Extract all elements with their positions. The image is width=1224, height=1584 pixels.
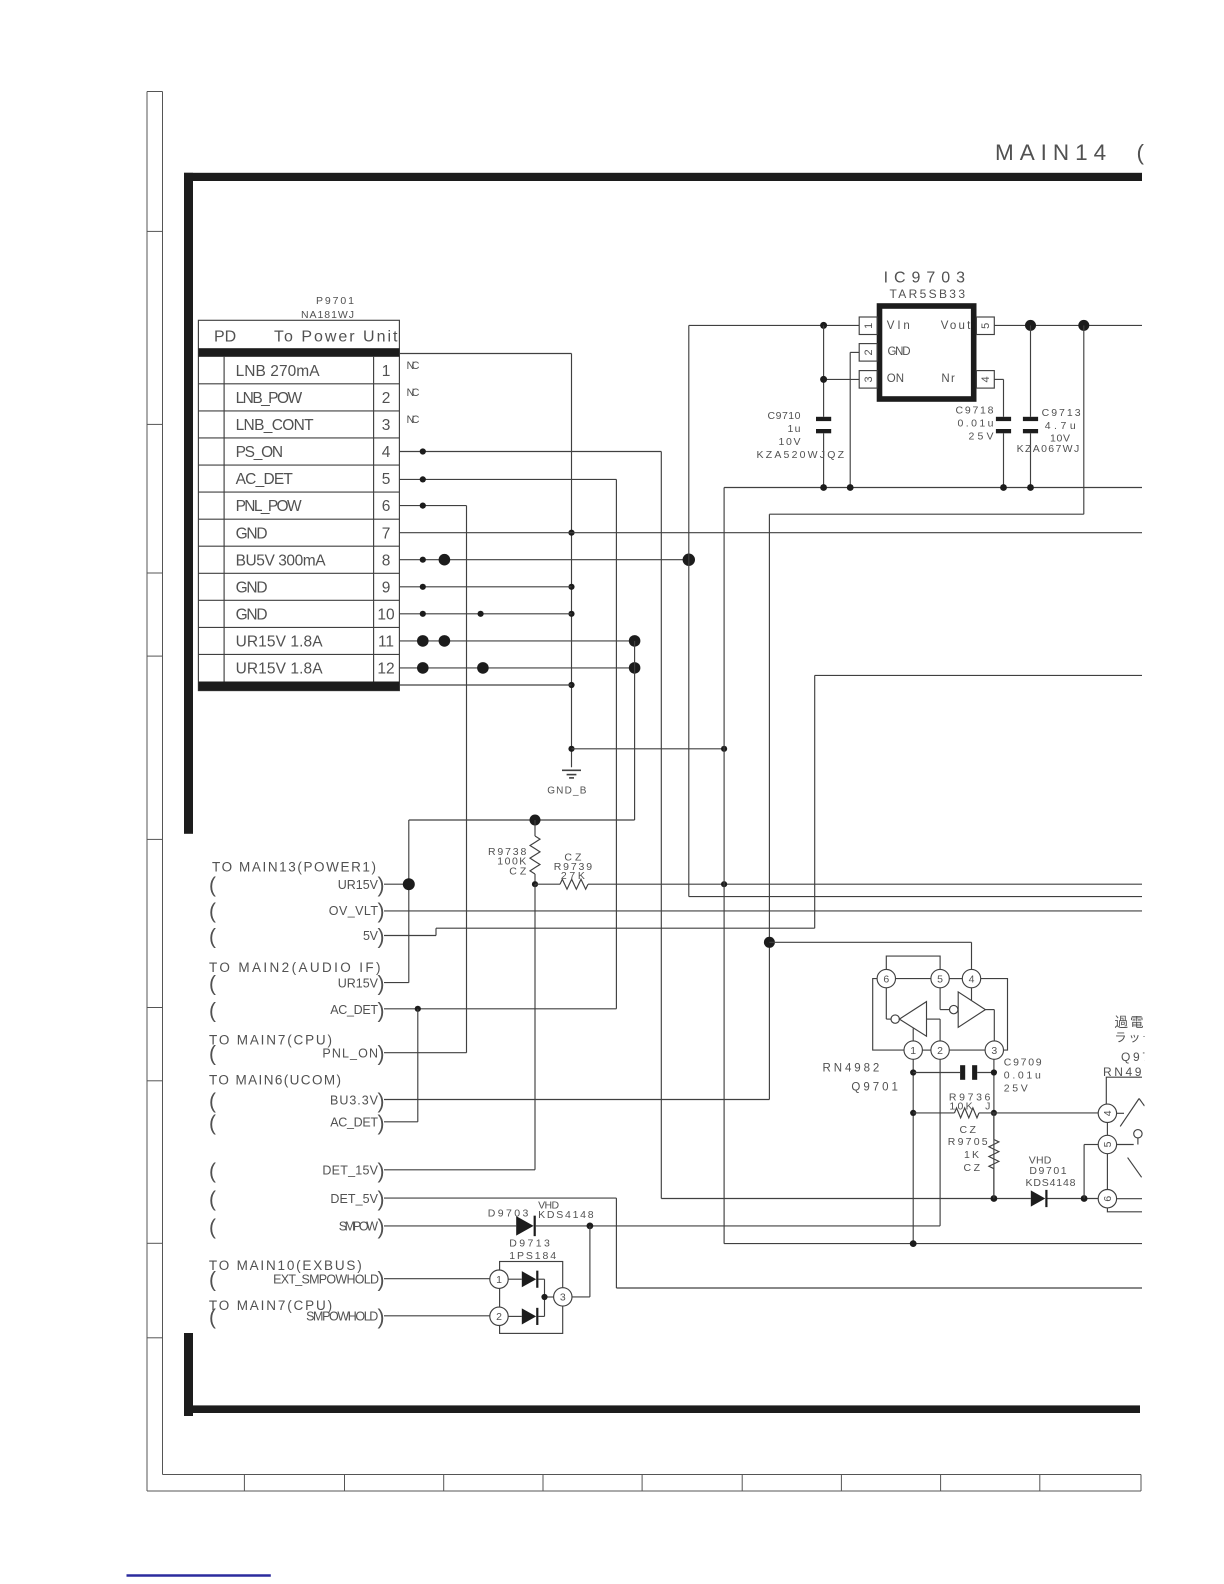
svg-text:27K: 27K: [561, 870, 585, 882]
wire Q9702 top bracket: [1106, 1077, 1142, 1104]
svg-text:(: (: [209, 1112, 216, 1135]
wire Nr pin4 to C9718: [994, 379, 1003, 416]
svg-text:(: (: [209, 1269, 216, 1292]
wire PS_ON lower rail to D9701: [661, 1198, 1031, 1200]
wire 5V rail: [384, 675, 1142, 935]
resistor R9705 1K CZ: [948, 1113, 999, 1199]
wire Q9701 top bracket pins 6-5: [886, 956, 940, 969]
node UR15V-11 pads: [417, 635, 429, 647]
svg-text:Vout: Vout: [941, 320, 971, 332]
svg-text:4: 4: [969, 973, 975, 985]
svg-text:D9701: D9701: [1029, 1165, 1066, 1177]
svg-text:): ): [378, 1000, 385, 1023]
svg-text:5: 5: [980, 323, 992, 329]
wire GND pin7 rail: [399, 532, 1142, 534]
svg-text:PD: PD: [214, 329, 236, 346]
node row7 GND junction: [568, 530, 574, 536]
op-amp IC9703 TAR5SB33: [859, 270, 994, 400]
svg-text:LNB_POW: LNB_POW: [236, 390, 303, 407]
svg-text:KZA067WJ: KZA067WJ: [1017, 443, 1080, 455]
node pin1 GND-rail junction: [910, 1240, 917, 1247]
svg-text:D9703: D9703: [488, 1207, 529, 1219]
svg-text:): ): [378, 973, 385, 996]
svg-text:7: 7: [382, 525, 391, 542]
svg-text:PNL_POW: PNL_POW: [236, 498, 302, 515]
svg-text:UR15V 1.8A: UR15V 1.8A: [236, 661, 324, 678]
svg-text:1: 1: [910, 1045, 916, 1057]
node R9739 GND junction: [721, 881, 727, 887]
svg-text:NC: NC: [407, 414, 420, 426]
svg-text:Nr: Nr: [941, 373, 955, 385]
svg-text:5: 5: [937, 973, 943, 985]
svg-text:(: (: [209, 1188, 216, 1211]
node GND10 markers: [420, 611, 426, 617]
wire ON tie to VIn: [824, 325, 860, 416]
svg-text:C9709: C9709: [1004, 1057, 1042, 1069]
svg-text:3: 3: [991, 1045, 997, 1057]
svg-text:): ): [378, 1160, 385, 1183]
wire 3.3V to Q9701 pin4: [769, 942, 971, 969]
svg-text:Q9701: Q9701: [851, 1082, 898, 1094]
wire below table: [399, 684, 571, 686]
wire UR15V pin11: [399, 640, 634, 642]
svg-text:): ): [378, 1043, 385, 1066]
wire divider node to DET_15V: [384, 884, 535, 1170]
svg-text:NC: NC: [407, 360, 420, 372]
wire junction up to pin5 of Q9702: [1084, 1145, 1098, 1199]
svg-text:AC_DET: AC_DET: [330, 1116, 378, 1130]
node BU5V marker: [420, 557, 426, 563]
node VIn C9710 junction: [820, 322, 827, 329]
svg-text:GND_B: GND_B: [547, 786, 587, 797]
node UR15V MAIN13 junction: [403, 878, 415, 890]
wire AC_DET to MAIN6: [384, 1009, 418, 1122]
svg-text:1: 1: [863, 323, 875, 329]
svg-text:1: 1: [496, 1274, 502, 1286]
svg-text:R9705: R9705: [948, 1136, 988, 1148]
svg-text:(: (: [209, 1216, 216, 1239]
node GND_B right junction: [721, 746, 727, 752]
svg-text:KZA520WJQZ: KZA520WJQZ: [757, 449, 845, 461]
svg-text:(: (: [209, 973, 216, 996]
node UR15V rail R9738 junction: [530, 815, 541, 826]
node Vout C9713 junction: [1025, 320, 1036, 331]
inverter A of Q9701: [886, 988, 940, 1041]
svg-text:4: 4: [1102, 1110, 1114, 1116]
svg-text:3: 3: [863, 376, 875, 382]
svg-text:DET_15V: DET_15V: [322, 1164, 378, 1178]
svg-text:5V: 5V: [363, 929, 379, 943]
wire GND pin10: [399, 613, 571, 615]
svg-text:GND: GND: [888, 346, 911, 358]
node Vout feedback junction: [1078, 320, 1089, 331]
diode array D9713 1PS184: [490, 1238, 572, 1334]
wire 3.3V feedback to BU3.3V: [384, 325, 1084, 1099]
wire D9701 cathode to pin6 of Q9702: [1048, 1198, 1099, 1200]
svg-text:NC: NC: [407, 387, 420, 399]
diode D9701 VHD KDS4148: [1026, 1155, 1076, 1208]
svg-text:5: 5: [1102, 1141, 1114, 1147]
svg-text:LNB 270mA: LNB 270mA: [236, 363, 321, 380]
wire OV_VLT rail: [384, 910, 1142, 912]
svg-text:(: (: [209, 1160, 216, 1183]
svg-text:To Power Unit: To Power Unit: [274, 329, 398, 346]
svg-text:3: 3: [382, 417, 391, 434]
svg-text:SMPOW: SMPOW: [339, 1220, 378, 1234]
resistor R9739 27K CZ: [535, 851, 1142, 889]
svg-text:1K: 1K: [964, 1149, 979, 1161]
node BU5V to VIn junction: [683, 554, 695, 566]
svg-text:4.7u: 4.7u: [1045, 420, 1076, 432]
svg-text:10: 10: [377, 606, 395, 623]
svg-text:11: 11: [378, 634, 394, 651]
node 3.3V to pin4 wire junction: [764, 937, 775, 948]
svg-text:2: 2: [496, 1311, 502, 1323]
wire VIn line: [689, 324, 859, 326]
wire EXT_SMPOWHOLD to D9713: [384, 1278, 490, 1280]
wire GND pin2 of IC9703: [850, 352, 859, 487]
wire DET_5V rail: [384, 1198, 1142, 1288]
capacitor C9713 4.7u 10V: [1017, 325, 1081, 487]
svg-text:GND: GND: [236, 579, 268, 596]
svg-text:DET_5V: DET_5V: [330, 1192, 378, 1206]
node ON junction: [820, 376, 827, 383]
svg-text:2: 2: [937, 1045, 943, 1057]
svg-text:): ): [378, 1269, 385, 1292]
svg-text:10V: 10V: [779, 436, 801, 448]
inverter A of Q9702 (cut): [1117, 1099, 1145, 1139]
wire GND_B horizontal: [572, 748, 725, 750]
svg-text:3: 3: [560, 1292, 566, 1304]
svg-text:0.01u: 0.01u: [1004, 1070, 1041, 1082]
svg-text:4: 4: [980, 376, 992, 382]
svg-text:LNB_CONT: LNB_CONT: [236, 417, 315, 434]
schematic border frame (thick): [184, 173, 1142, 1416]
svg-text:(: (: [209, 1043, 216, 1066]
svg-text:5: 5: [382, 471, 391, 488]
svg-text:BU3.3V: BU3.3V: [330, 1094, 379, 1108]
svg-text:AC_DET: AC_DET: [330, 1003, 378, 1017]
wire GND rail of IC9703: [724, 488, 1142, 1244]
svg-text:(: (: [209, 926, 216, 949]
wire PNL_POW pin6 to PNL_ON: [384, 506, 467, 1053]
wire R9736 line into pin4: [1097, 1112, 1099, 1114]
node below-table junction: [568, 682, 574, 688]
wire Q9701 right rail pin4 to pin3: [981, 979, 1008, 1051]
svg-text:C9710: C9710: [768, 410, 801, 422]
capacitor C9718 0.01u 25V: [956, 405, 1012, 488]
svg-text:OV_VLT: OV_VLT: [329, 904, 379, 918]
svg-text:NA181WJ: NA181WJ: [301, 309, 354, 321]
connector table PD To Power Unit: [198, 320, 399, 690]
svg-text:): ): [378, 1112, 385, 1135]
wire table-top to GND_B drop: [399, 354, 571, 768]
svg-text:TO MAIN13(POWER1): TO MAIN13(POWER1): [212, 859, 376, 874]
node row9 GND junction: [568, 584, 574, 590]
svg-text:(: (: [209, 1090, 216, 1113]
svg-text:UR15V 1.8A: UR15V 1.8A: [236, 634, 324, 651]
svg-text:TO MAIN7(CPU): TO MAIN7(CPU): [209, 1033, 332, 1048]
wire GND pin9: [399, 586, 571, 588]
svg-text:2: 2: [382, 390, 391, 407]
pin circles of Q9702: [1098, 1104, 1116, 1208]
blue pen mark bottom-left: [127, 1574, 271, 1576]
node AC_DET branch junction: [415, 1006, 421, 1012]
svg-text:VIn: VIn: [887, 320, 910, 332]
capacitor C9710 1u 10V: [757, 410, 845, 488]
svg-text:TO MAIN6(UCOM): TO MAIN6(UCOM): [209, 1073, 341, 1088]
svg-text:(: (: [209, 1306, 216, 1329]
svg-text:8: 8: [382, 552, 391, 569]
node pin3 D9701 junction: [991, 1195, 998, 1202]
svg-text:D9713: D9713: [509, 1238, 550, 1250]
svg-text:(: (: [209, 874, 216, 897]
svg-text:2: 2: [863, 349, 875, 355]
svg-text:): ): [378, 900, 385, 923]
svg-text:EXT_SMPOWHOLD: EXT_SMPOWHOLD: [273, 1272, 379, 1286]
inverter B of Q9702 (cut): [1117, 1138, 1142, 1177]
wire Q9701 pin3 net down: [993, 1059, 995, 1198]
svg-text:0.01u: 0.01u: [958, 418, 994, 430]
svg-text:6: 6: [883, 973, 889, 985]
wire AC_DET pin5: [384, 479, 616, 1008]
node pin1 R9736 junction: [910, 1110, 916, 1116]
svg-text:KDS4148: KDS4148: [538, 1209, 594, 1221]
bottom fold-mark ruler: [147, 1475, 1141, 1492]
wire BU5V pin8: [399, 559, 688, 561]
svg-text:1: 1: [382, 363, 391, 380]
svg-text:(: (: [209, 1000, 216, 1023]
svg-text:ON: ON: [887, 373, 904, 385]
svg-text:C9713: C9713: [1042, 407, 1081, 419]
node BU5V pad: [439, 554, 451, 566]
pin circles of Q9701: [877, 969, 1003, 1059]
wire SMPOWHOLD to D9713: [384, 1315, 490, 1317]
node GND rail junctions: [820, 484, 827, 491]
node AC_DET marker: [420, 476, 426, 482]
inverter B of Q9701: [940, 988, 994, 1041]
svg-text:25V: 25V: [1004, 1083, 1028, 1095]
capacitor C9709 0.01u 25V: [913, 1057, 1042, 1095]
transistor-array Q9701 RN4982: [823, 1062, 898, 1093]
node PNL_POW marker: [420, 503, 426, 509]
node row10 GND junction: [568, 611, 574, 617]
svg-text:): ): [378, 874, 385, 897]
node D9701 pin5 junction: [1081, 1195, 1088, 1202]
svg-text:UR15V: UR15V: [338, 976, 379, 990]
wire BU5V vertical to VIn and down: [689, 325, 1142, 896]
svg-text:12: 12: [377, 661, 394, 678]
node UR15V-12 pads: [417, 662, 429, 674]
wire PS_ON pin4: [399, 452, 661, 1199]
left fold-mark ruler: [147, 92, 163, 1492]
node SMPOW junction: [587, 1223, 594, 1230]
wire pin chain of Q9702: [1107, 1123, 1142, 1212]
diode D9703 VHD KDS4148: [488, 1200, 594, 1236]
wire UR15V bus down-left to MAIN13: [384, 641, 635, 983]
resistor R9736 10K J CZ: [913, 1092, 1098, 1136]
svg-text:9: 9: [382, 579, 391, 596]
svg-text:GND: GND: [236, 525, 268, 542]
svg-text:): ): [378, 1306, 385, 1329]
node D9713 output junction: [541, 1294, 547, 1300]
svg-text:6: 6: [1102, 1196, 1114, 1202]
svg-text:): ): [378, 1090, 385, 1113]
wire Q9701 pin links: [896, 979, 986, 1051]
wire Vout line: [994, 324, 1142, 326]
svg-text:): ): [378, 1216, 385, 1239]
wire SMPOW rail: [384, 1059, 940, 1226]
node PS_ON marker: [420, 448, 426, 454]
svg-text:4: 4: [382, 444, 391, 461]
svg-text:AC_DET: AC_DET: [236, 471, 294, 488]
svg-text:): ): [378, 1188, 385, 1211]
node pin3 R9736 junction: [991, 1110, 997, 1116]
svg-text:UR15V: UR15V: [338, 878, 379, 892]
node pin1 C9709 junction: [910, 1069, 916, 1075]
node GND9 marker: [420, 584, 426, 590]
svg-text:6: 6: [382, 498, 391, 515]
svg-text:SMPOWHOLD: SMPOWHOLD: [306, 1310, 378, 1324]
wire UR15V pin12: [399, 667, 634, 669]
wire SMPOW to D9713 pin3: [572, 1226, 590, 1297]
svg-text:1u: 1u: [788, 423, 801, 435]
resistor R9738 100K CZ: [488, 820, 540, 884]
node R-divider junction: [532, 881, 538, 887]
wire Q9701 left rail pin6 to pin1: [873, 979, 904, 1051]
svg-text:TO MAIN2(AUDIO IF): TO MAIN2(AUDIO IF): [209, 960, 381, 975]
svg-text:(: (: [209, 900, 216, 923]
svg-text:): ): [378, 926, 385, 949]
svg-text:25V: 25V: [969, 431, 994, 443]
svg-text:P9701: P9701: [316, 295, 354, 307]
svg-text:PS_ON: PS_ON: [236, 444, 284, 461]
wire Q9701 pin1 net down: [912, 1059, 914, 1243]
svg-text:C9718: C9718: [956, 405, 994, 417]
svg-text:KDS4148: KDS4148: [1026, 1177, 1076, 1189]
wire pin6 of Q9702 right: [1117, 1198, 1142, 1200]
svg-text:GND: GND: [236, 606, 268, 623]
node GND_B junction: [568, 746, 574, 752]
svg-text:BU5V 300mA: BU5V 300mA: [236, 552, 327, 569]
svg-text:PNL_ON: PNL_ON: [322, 1046, 378, 1060]
node pin3 C9709 junction: [991, 1069, 997, 1075]
ground GND_B symbol: [547, 770, 587, 796]
